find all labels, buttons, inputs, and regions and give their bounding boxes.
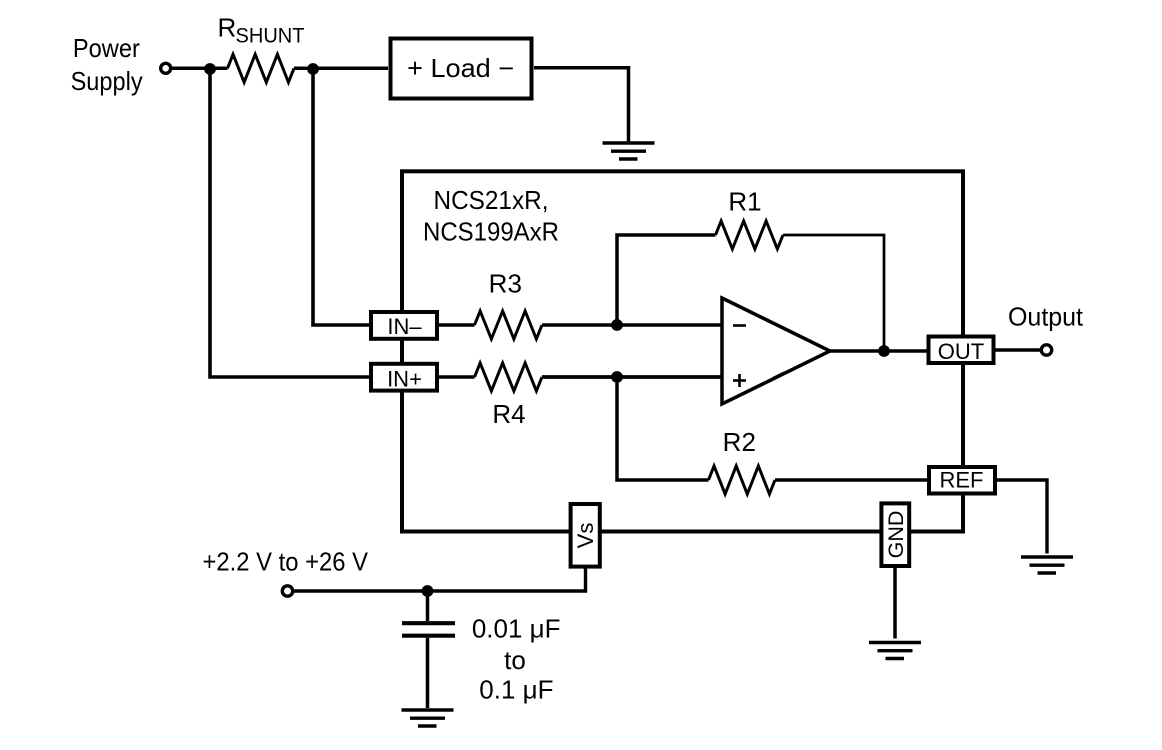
svg-text:to: to — [504, 645, 526, 675]
wire REF to ground — [996, 480, 1047, 554]
svg-text:Supply: Supply — [71, 66, 143, 96]
op-amp U1 — [722, 298, 830, 404]
wire junction to capacitor — [426, 591, 430, 621]
wire capacitor to ground — [426, 638, 430, 708]
svg-text:R3: R3 — [489, 269, 522, 299]
label Output — [1008, 302, 1084, 332]
svg-text:Output: Output — [1008, 302, 1084, 332]
wire power supply to RSHUNT — [172, 67, 228, 71]
wire Vs pin to supply rail — [292, 568, 586, 591]
resistor RSHUNT — [228, 54, 295, 82]
wire load to ground — [534, 68, 629, 142]
svg-text:R: R — [218, 13, 237, 43]
junction node output — [878, 345, 890, 357]
capacitor C1 — [402, 623, 455, 636]
IC box NCS21xR — [402, 171, 963, 531]
svg-text:+ Load −: + Load − — [407, 53, 514, 83]
svg-text:Vs: Vs — [573, 523, 598, 549]
pin box Vs — [571, 504, 600, 567]
wire op-amp output to OUT — [830, 349, 927, 353]
pin box IN+ — [371, 364, 437, 392]
wire GND pin to ground — [893, 568, 897, 639]
wire IN- to R3 — [437, 323, 475, 326]
svg-text:GND: GND — [884, 511, 908, 559]
wire OUT to output terminal — [996, 348, 1042, 351]
wire R4 to op-amp noninverting input — [542, 375, 722, 379]
wire R2 to REF — [775, 478, 927, 481]
load box — [391, 39, 532, 99]
terminal output — [1041, 345, 1051, 355]
wire R1 feedback right to output node — [783, 235, 884, 351]
svg-text:SHUNT: SHUNT — [236, 25, 305, 48]
resistor R2 — [709, 466, 776, 494]
svg-text:OUT: OUT — [938, 339, 984, 364]
pin box IN- — [371, 312, 437, 339]
label R2 — [723, 427, 756, 457]
svg-text:Power: Power — [73, 33, 140, 63]
terminal power supply input — [161, 63, 171, 73]
wire R3 to op-amp inverting input — [542, 323, 722, 327]
svg-text:IN+: IN+ — [387, 366, 422, 391]
wire R1 feedback left — [617, 235, 716, 325]
junction node supply — [422, 585, 434, 597]
junction node inverting input — [611, 319, 623, 331]
svg-text:REF: REF — [940, 467, 984, 492]
junction node B — [307, 63, 319, 75]
svg-text:+2.2 V to +26 V: +2.2 V to +26 V — [203, 547, 369, 577]
svg-text:R1: R1 — [728, 187, 761, 217]
wire node A down to IN+ — [210, 68, 369, 377]
pin box GND — [881, 503, 909, 566]
svg-text:R2: R2 — [723, 427, 756, 457]
ground G4 below capacitor — [402, 710, 454, 726]
svg-text:0.01 μF: 0.01 μF — [472, 613, 561, 643]
ground G2 right of REF — [1021, 557, 1073, 573]
svg-text:0.1 μF: 0.1 μF — [479, 674, 553, 704]
wire IN+ to R4 — [437, 375, 475, 378]
label R1 — [728, 187, 761, 217]
ground G1 below load — [603, 143, 655, 159]
terminal supply input — [282, 586, 292, 596]
pin box REF — [929, 467, 995, 494]
resistor R4 — [475, 363, 543, 391]
label R4 — [492, 399, 525, 429]
svg-text:R4: R4 — [492, 399, 525, 429]
wire RSHUNT to load — [294, 67, 388, 71]
svg-text:IN–: IN– — [387, 314, 422, 339]
resistor R1 — [716, 221, 784, 249]
wire node B down to IN- — [313, 68, 369, 325]
junction node A — [204, 63, 216, 75]
wire noninverting node down to R2 — [617, 377, 709, 480]
label RSHUNT — [218, 13, 305, 48]
label capacitor value — [472, 613, 561, 704]
label NCS21xR NCS199AxR — [423, 185, 559, 247]
svg-text:NCS21xR,: NCS21xR, — [434, 185, 549, 215]
pin box OUT — [929, 337, 994, 365]
label +2.2 V to +26 V — [203, 547, 369, 577]
label Power Supply — [71, 33, 143, 96]
label R3 — [489, 269, 522, 299]
svg-text:NCS199AxR: NCS199AxR — [423, 217, 559, 247]
junction node noninverting input — [611, 371, 623, 383]
resistor R3 — [475, 311, 543, 339]
ground G3 below GND pin — [869, 643, 921, 659]
